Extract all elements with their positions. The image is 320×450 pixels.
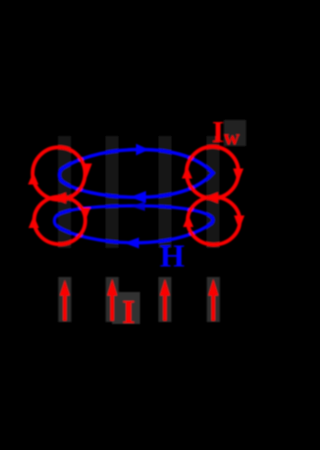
eddy current loop, top-left (red) — [33, 147, 85, 199]
svg-text:I: I — [122, 294, 135, 331]
current arrow I1 head — [60, 280, 70, 296]
gray halo behind label I — [112, 292, 140, 324]
red arrowhead bottom-left loop, left edge, pointing up — [29, 216, 40, 229]
current arrow I3 head — [160, 279, 170, 296]
red arrowhead bottom-right loop, right edge, pointing down — [234, 216, 245, 230]
current arrow I4 shaft — [212, 292, 216, 321]
conductor bar 3 — [159, 136, 172, 248]
conductor bar 4 — [207, 136, 220, 248]
current arrow I2 head — [107, 279, 117, 296]
svg-text:I: I — [212, 114, 224, 149]
red arrowhead top-left loop, left edge, pointing up — [28, 172, 39, 185]
eddy current loop, bottom-right (red) — [188, 197, 240, 245]
gray halo behind label Iw — [224, 120, 246, 146]
svg-text:H: H — [160, 238, 185, 274]
field line H upper (blue pointed oval through top conductor row) — [59, 150, 213, 198]
current arrow I3 shaft — [163, 292, 167, 321]
red arrowhead bottom-right loop, left edge, pointing up — [183, 215, 194, 228]
conductor bar 2 lower segment (behind current arrow I2) — [106, 277, 119, 322]
red arrowhead left figure-eight junction, pointing left — [52, 193, 66, 204]
current arrow I2 shaft — [110, 292, 114, 321]
conductor bar 4 lower segment (behind current arrow I4) — [207, 277, 220, 322]
eddy current loop, top-right (red) — [187, 147, 239, 199]
red arrowhead top-left loop, right edge, pointing down — [82, 164, 93, 178]
conductor bar 2 — [106, 136, 119, 248]
red arrowhead top-right loop, left edge, pointing up — [182, 166, 193, 179]
eddy current loop, bottom-left (red) — [34, 197, 85, 245]
blue arrowhead on upper field line, top arc, pointing right — [136, 144, 149, 156]
conductor bar 1 (left wire body) — [58, 136, 71, 248]
current arrow I1 shaft — [63, 292, 67, 321]
red arrowhead right figure-eight junction, pointing left — [204, 192, 218, 203]
current arrow I4 head — [208, 279, 218, 296]
red arrowhead top-right loop, right edge, pointing down — [233, 169, 244, 183]
blue arrowhead on lower field line, bottom arc, pointing left — [124, 238, 139, 249]
blue arrowhead on upper field line, bottom arc, pointing left — [130, 191, 146, 203]
field line H lower (blue pointed oval through bottom conductor row) — [54, 206, 213, 243]
blue arrowhead on lower field line, top arc, pointing left (dim) — [131, 202, 145, 212]
conductor bar 3 lower segment (behind current arrow I3) — [158, 277, 171, 322]
red arrowhead bottom-left loop, right edge, pointing down — [80, 208, 91, 222]
svg-text:w: w — [224, 124, 240, 149]
conductor bar 1 lower segment (behind current arrow I1) — [58, 277, 71, 322]
